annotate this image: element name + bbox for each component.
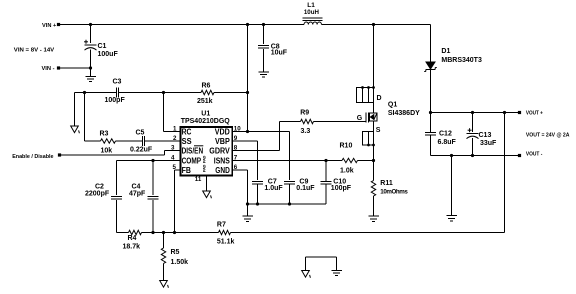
svg-text:251k: 251k [197,98,213,105]
svg-text:VOUT = 24V @ 2A: VOUT = 24V @ 2A [526,133,570,139]
svg-text:C3: C3 [113,79,122,86]
svg-text:VIN = 8V - 14V: VIN = 8V - 14V [14,48,55,54]
svg-text:C12: C12 [439,130,452,137]
svg-text:R10: R10 [340,143,353,150]
svg-text:ISNS: ISNS [214,157,231,166]
svg-text:51.1k: 51.1k [217,238,235,245]
svg-text:GND: GND [215,166,230,175]
svg-text:Enable / Disable: Enable / Disable [12,154,54,160]
svg-text:SS: SS [182,137,193,146]
svg-text:COMP: COMP [182,157,202,166]
svg-text:D: D [377,95,382,102]
svg-text:5: 5 [173,164,177,171]
svg-text:1: 1 [173,126,177,133]
svg-text:L1: L1 [307,2,315,9]
svg-text:1.50k: 1.50k [171,259,189,266]
svg-text:R4: R4 [128,235,137,242]
svg-text:MBRS340T3: MBRS340T3 [441,57,482,64]
svg-text:R3: R3 [100,130,109,137]
svg-text:0.22uF: 0.22uF [130,146,153,153]
svg-text:6.8uF: 6.8uF [438,139,457,146]
svg-text:100pF: 100pF [331,185,352,192]
svg-text:4: 4 [171,155,175,162]
svg-text:D1: D1 [441,48,450,55]
svg-text:2: 2 [173,135,177,142]
svg-text:FB: FB [182,166,191,175]
svg-text:R9: R9 [300,110,309,117]
svg-text:3: 3 [171,145,175,152]
svg-text:0.1uF: 0.1uF [296,185,315,192]
svg-text:G: G [357,115,363,122]
svg-text:10mOhms: 10mOhms [380,189,408,196]
svg-text:2200pF: 2200pF [85,190,110,197]
svg-text:PAD: PAD [201,164,206,172]
svg-text:11: 11 [195,176,202,183]
svg-text:RC: RC [182,128,192,137]
svg-text:VDD: VDD [215,128,230,137]
svg-text:GDRV: GDRV [209,147,230,156]
svg-text:47pF: 47pF [129,190,146,197]
svg-text:VOUT +: VOUT + [526,110,543,116]
svg-text:Q1: Q1 [388,101,397,108]
svg-text:1.0k: 1.0k [340,167,354,174]
svg-text:VOUT -: VOUT - [526,151,543,157]
svg-text:TPS40210DGQ: TPS40210DGQ [181,118,231,125]
svg-text:C13: C13 [479,132,492,139]
svg-text:VIN -: VIN - [42,66,55,72]
svg-text:10uF: 10uF [271,49,288,56]
svg-text:1.0uF: 1.0uF [264,185,283,192]
svg-text:SI4386DY: SI4386DY [388,110,420,117]
svg-text:C5: C5 [136,130,145,137]
svg-text:S: S [376,127,381,134]
svg-text:100uF: 100uF [98,51,119,58]
svg-text:PAD: PAD [201,155,206,163]
svg-text:C1: C1 [98,43,107,50]
svg-text:10k: 10k [101,147,113,154]
svg-text:VBP: VBP [215,137,230,146]
svg-text:R7: R7 [217,222,226,229]
svg-text:U1: U1 [201,111,210,118]
svg-text:R5: R5 [171,249,180,256]
svg-text:18.7k: 18.7k [123,243,141,250]
svg-text:R6: R6 [202,83,211,90]
svg-text:33uF: 33uF [480,140,497,147]
svg-text:VIN +: VIN + [42,23,57,29]
svg-text:3.3: 3.3 [301,128,311,135]
svg-text:100pF: 100pF [105,97,126,104]
svg-text:R11: R11 [380,180,393,187]
svg-text:10uH: 10uH [304,9,319,16]
svg-text:DIS/EN: DIS/EN [182,147,204,156]
